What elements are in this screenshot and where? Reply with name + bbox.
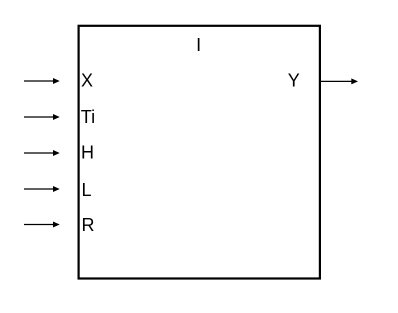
svg-text:H: H — [81, 143, 94, 163]
svg-text:Y: Y — [288, 71, 300, 91]
block U1 (main rectangle) — [79, 26, 320, 279]
output arrow Y — [321, 78, 358, 84]
input arrow Ti — [24, 114, 60, 120]
input arrow R — [24, 222, 60, 228]
input arrow L — [24, 186, 60, 192]
svg-text:I: I — [196, 35, 201, 55]
input arrow H — [24, 150, 60, 156]
svg-text:L: L — [82, 180, 92, 200]
input arrow X — [24, 78, 60, 84]
svg-text:X: X — [81, 71, 93, 91]
svg-text:R: R — [82, 215, 95, 235]
svg-text:Ti: Ti — [81, 107, 95, 127]
